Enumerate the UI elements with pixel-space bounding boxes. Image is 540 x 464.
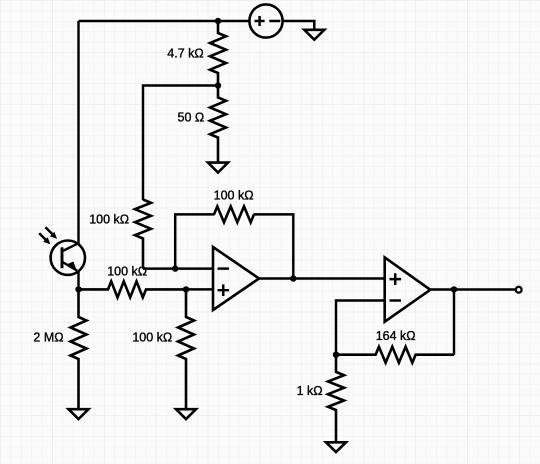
resistor 50 Ohm <box>210 86 226 163</box>
resistor 100 kOhm (left vertical, to inverting input) <box>135 200 151 269</box>
resistor 4.7 kOhm <box>210 21 226 86</box>
wire: junction left and down to 100k (left branch) <box>143 86 218 201</box>
node: 4.7k / 50 Ohm junction <box>215 82 221 88</box>
node: top rail / 4.7k junction <box>215 18 221 24</box>
wire: U2 inverting input loop down to feedback node <box>336 301 385 355</box>
wire: op-amp U1 output to op-amp U2 non-inverting input <box>259 277 385 279</box>
svg-text:100 kΩ: 100 kΩ <box>89 213 129 227</box>
svg-text:50 Ω: 50 Ω <box>178 110 205 124</box>
ground (top right) <box>304 30 324 40</box>
wire: node to op-amp non-inverting input <box>186 288 213 290</box>
terminal: output port <box>516 287 522 293</box>
op-amp U2 <box>385 257 431 321</box>
svg-text:4.7 kΩ: 4.7 kΩ <box>167 46 203 60</box>
node: U1 output / feedback junction <box>290 275 296 281</box>
resistor 164 kOhm <box>336 347 454 363</box>
wire: 164k up to output node <box>453 289 455 354</box>
resistor 100 kOhm (feedback) <box>214 206 254 222</box>
wire: U2 output to terminal <box>430 288 515 290</box>
voltage source (+ -) <box>249 4 282 37</box>
ground (below 2 MOhm) <box>69 409 89 419</box>
wire: voltage source to top-right ground <box>283 21 315 30</box>
svg-text:100 kΩ: 100 kΩ <box>132 330 172 344</box>
wire: left vertical rail down to phototransistor collector <box>77 21 79 245</box>
resistor 2 MOhm <box>71 289 87 409</box>
node: emitter junction <box>75 286 81 292</box>
wire: feedback down to output node <box>254 214 294 278</box>
wire: feedback riser from inverting node <box>175 214 214 268</box>
wire: top rail from left corner to voltage source <box>79 20 250 22</box>
svg-text:100 kΩ: 100 kΩ <box>107 265 147 279</box>
svg-text:100 kΩ: 100 kΩ <box>214 188 254 202</box>
svg-text:2 MΩ: 2 MΩ <box>33 330 63 344</box>
ground (below 1 kOhm) <box>326 442 346 452</box>
wire: 100k to op-amp inverting input <box>143 267 213 269</box>
svg-text:1 kΩ: 1 kΩ <box>297 384 323 398</box>
ground (below 50 Ohm) <box>208 163 228 173</box>
node: inverting input junction <box>172 265 178 271</box>
svg-text:164 kΩ: 164 kΩ <box>376 329 416 343</box>
resistor 100 kOhm (bottom middle) <box>178 289 194 409</box>
node: non-inverting branch junction <box>183 286 189 292</box>
resistor 100 kOhm (horizontal, emitter to non-inverting input) <box>79 281 187 297</box>
wire: emitter down to node <box>77 271 79 289</box>
op-amp U1 <box>213 247 259 310</box>
node: feedback / 1k junction <box>333 352 339 358</box>
node: U2 output junction <box>451 286 457 292</box>
ground (below bottom-middle 100k) <box>176 409 196 419</box>
resistor 1 kOhm <box>328 355 344 442</box>
phototransistor Q1 <box>39 227 85 275</box>
